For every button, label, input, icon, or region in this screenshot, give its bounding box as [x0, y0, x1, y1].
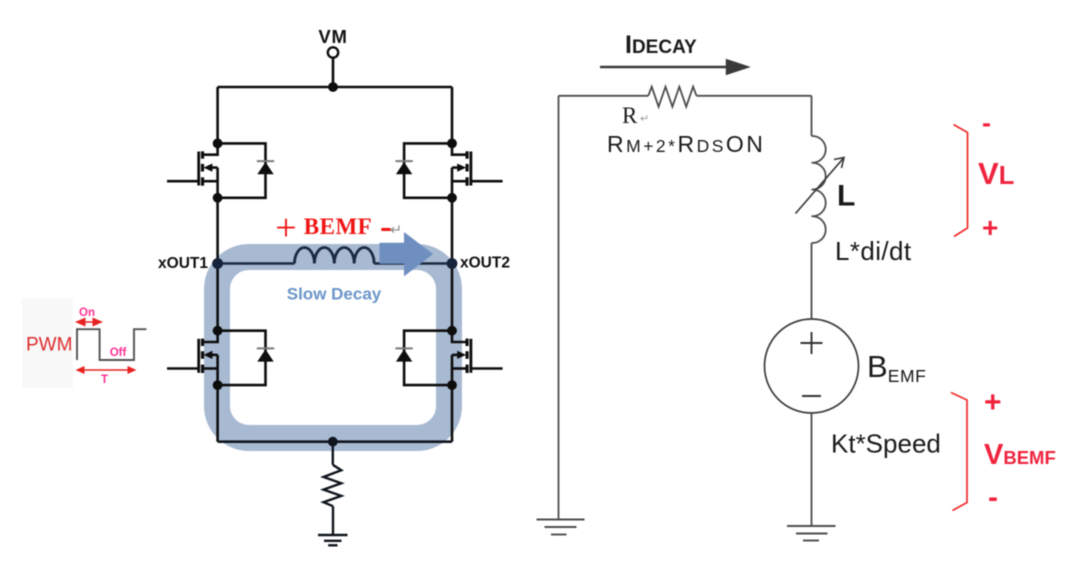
svg-text:+: +	[984, 386, 1002, 419]
node xOUT1	[212, 258, 223, 269]
svg-text:xOUT1: xOUT1	[158, 255, 208, 272]
svg-text:-: -	[982, 108, 991, 138]
inductor motor winding	[295, 247, 375, 263]
node bottom rail junction	[328, 437, 338, 447]
svg-text:L*di/dt: L*di/dt	[835, 236, 912, 266]
svg-text:L: L	[837, 180, 855, 213]
wire top rail	[218, 86, 452, 89]
svg-text:PWM: PWM	[26, 335, 72, 356]
node top rail junction	[328, 82, 338, 92]
ground left circuit	[318, 535, 348, 545]
wire left rail lower	[216, 385, 219, 442]
wire right rail lower	[451, 385, 454, 442]
bracket VL	[954, 125, 968, 237]
wire bottom rail	[218, 440, 452, 443]
wire top right segment (right circuit)	[697, 95, 812, 97]
svg-text:Off: Off	[110, 347, 127, 359]
wire top left segment (right circuit)	[559, 95, 649, 97]
ground left (right circuit)	[537, 520, 585, 535]
wire left rail middle	[216, 198, 219, 331]
decay current arrow	[380, 232, 434, 276]
node xOUT2	[447, 258, 458, 269]
svg-text:Kt*Speed: Kt*Speed	[831, 429, 941, 459]
svg-text:R: R	[622, 103, 638, 128]
transistor Q3 low-side left with body diode	[167, 326, 274, 390]
wire right rail above inductor	[811, 96, 813, 136]
svg-text:BEMF: BEMF	[304, 214, 372, 239]
svg-text:↵: ↵	[390, 223, 402, 239]
wire xOUT1 to motor	[218, 262, 295, 265]
wire left rail upper	[216, 87, 219, 143]
transistor Q2 high-side right with body diode	[395, 139, 502, 203]
PWM label background	[22, 298, 73, 388]
wire inductor to source	[811, 243, 813, 319]
variable inductor arrow	[796, 158, 845, 214]
svg-text:-: -	[988, 481, 998, 514]
wire right rail middle	[451, 198, 454, 331]
svg-text:↵: ↵	[640, 113, 649, 125]
wire motor to xOUT2	[374, 262, 452, 265]
svg-text:xOUT2: xOUT2	[460, 255, 510, 272]
voltage source BEMF	[765, 319, 859, 413]
plus sign in source	[801, 332, 823, 354]
svg-text:+: +	[982, 212, 998, 243]
slow decay highlight band	[217, 257, 449, 438]
ground right (right circuit)	[787, 526, 836, 541]
svg-text:T: T	[101, 374, 108, 386]
bracket VBEMF	[951, 393, 967, 511]
resistor R	[648, 87, 696, 107]
transistor Q1 high-side left with body diode	[167, 139, 274, 203]
inductor L (variable)	[812, 136, 826, 243]
transistor Q4 low-side right with body diode	[395, 326, 502, 390]
svg-text:Slow Decay: Slow Decay	[287, 285, 382, 304]
wire left rail (right circuit)	[558, 96, 560, 520]
svg-text:On: On	[79, 307, 95, 319]
wire right rail upper	[451, 87, 454, 143]
Idecay direction arrow	[600, 66, 728, 68]
svg-text:VM: VM	[318, 26, 347, 47]
period T arrow	[76, 366, 137, 374]
wire VM to top rail	[332, 58, 335, 87]
resistor Rsense	[324, 442, 342, 535]
wire source to ground	[811, 413, 813, 526]
svg-text:+: +	[275, 207, 296, 249]
minus sign in source	[802, 395, 821, 397]
VM terminal	[328, 47, 338, 57]
PWM waveform	[77, 329, 146, 360]
On duration arrow	[75, 318, 103, 327]
svg-text:VL: VL	[978, 156, 1014, 191]
